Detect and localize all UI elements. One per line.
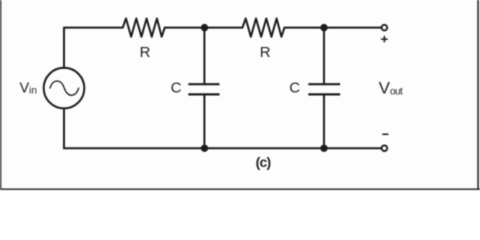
minus sign [383,133,388,135]
wire bottom rail [64,147,381,149]
wire top rail middle (R1 to R2 through node A) [165,27,243,29]
terminal + (open circle) [382,25,388,31]
source Vin circle [44,68,85,109]
wire C2 bottom lead [323,95,325,148]
wire Vin bottom lead [63,108,65,148]
wire C1 bottom lead [203,95,205,148]
svg-text:C: C [171,80,182,97]
wire C2 top lead [323,28,325,84]
plus sign [382,36,388,41]
node B (top junction 2) [320,24,327,31]
resistor R2 [242,19,284,37]
node D (bottom junction 2) [320,145,327,152]
resistor R1 [123,19,165,37]
svg-text:R: R [260,44,271,61]
capacitor C2 plates [308,84,340,94]
wire top rail left (Vin to R1) [64,28,123,68]
node A (top junction 1) [201,24,208,31]
svg-text:C: C [289,80,300,97]
svg-text:(c): (c) [256,154,271,170]
wire top rail right (R2 to + terminal through node B) [285,27,382,29]
sine wave inside Vin [50,81,79,95]
terminal - (open circle) [382,145,388,151]
capacitor C1 plates [188,84,219,94]
node C (bottom junction 1) [201,145,208,152]
wire C1 top lead [203,28,205,84]
svg-text:R: R [140,44,151,61]
